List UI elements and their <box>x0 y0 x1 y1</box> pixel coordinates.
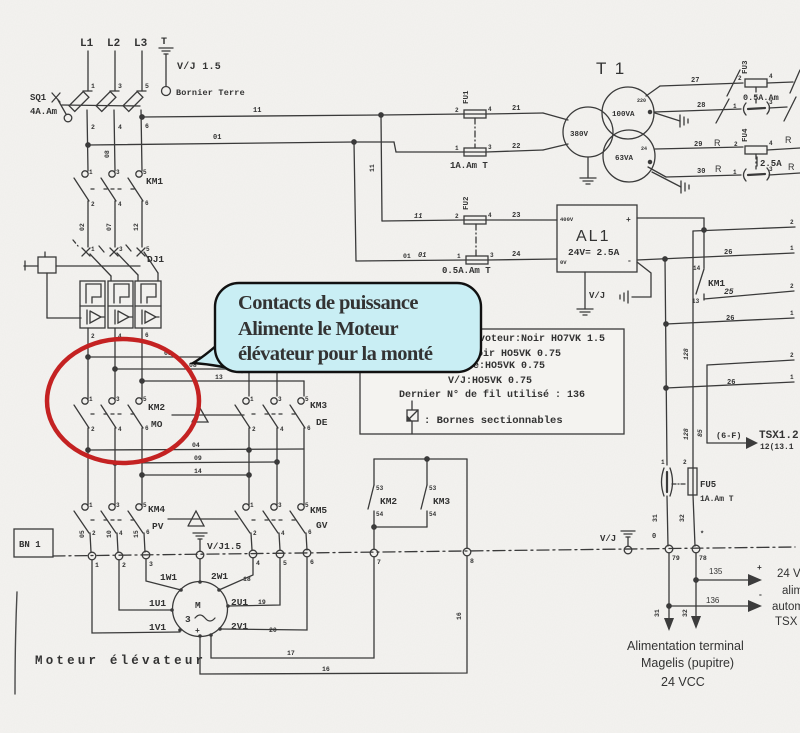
callout bubble <box>215 283 481 372</box>
wire 25 to right edge <box>704 283 794 299</box>
svg-text:6: 6 <box>145 123 149 130</box>
svg-text:2: 2 <box>734 141 738 148</box>
motor terminal dots <box>170 580 230 638</box>
wire +24V from AL1 <box>637 218 795 232</box>
terminal 8 <box>463 548 474 565</box>
svg-text:evoteur:Noir HO7VK 1.5: evoteur:Noir HO7VK 1.5 <box>473 333 605 345</box>
wire 19 terminal5 to 2U1 <box>228 558 280 606</box>
svg-text:PV: PV <box>152 521 164 532</box>
AL1 minus earth stub <box>620 262 651 303</box>
svg-text:6: 6 <box>146 529 150 536</box>
svg-text:28: 28 <box>697 102 705 110</box>
down arrow wire 32 <box>682 609 701 629</box>
earth stub secondary 1 <box>655 113 688 127</box>
disconnect switch SQ1 <box>30 92 143 122</box>
transformer T1 primary winding 380V <box>543 107 613 157</box>
svg-text:6: 6 <box>145 425 149 432</box>
svg-text:T 1: T 1 <box>596 59 626 78</box>
terminal 6 <box>303 549 314 566</box>
svg-text:3: 3 <box>490 252 494 259</box>
disconnect terminal below FU3 <box>733 87 787 115</box>
svg-text:KM2: KM2 <box>380 496 397 507</box>
KM3 output column 2 <box>276 428 278 505</box>
svg-text:6: 6 <box>307 425 311 432</box>
svg-text:54: 54 <box>376 511 384 518</box>
svg-text:1: 1 <box>455 145 459 152</box>
wire 07 column 2 KM1 to DJ1 <box>106 201 115 247</box>
svg-text:4: 4 <box>256 560 260 567</box>
svg-text:31: 31 <box>652 514 659 522</box>
svg-text:autom: autom <box>772 601 800 613</box>
svg-text:5: 5 <box>305 502 309 509</box>
svg-text:KM3: KM3 <box>310 400 327 411</box>
power supply AL1 <box>557 205 637 272</box>
wire 08 to KM3 <box>113 362 277 396</box>
wire column 1 below SQ1 <box>87 110 95 171</box>
wire terminal1 to 1V1 <box>92 560 180 633</box>
svg-text:2: 2 <box>790 283 794 290</box>
svg-text:1: 1 <box>790 374 794 381</box>
thermal trip elements <box>86 310 88 324</box>
wire 30 secondary to terminal <box>648 164 741 177</box>
wire 02 column 1 KM1 to DJ1 <box>79 201 88 247</box>
callout bubble tail <box>193 334 242 372</box>
svg-text:1U1: 1U1 <box>149 598 166 609</box>
svg-text:1: 1 <box>95 562 99 569</box>
svg-text:élévateur pour la monté: élévateur pour la monté <box>238 343 433 365</box>
svg-text:*: * <box>700 531 704 539</box>
svg-text:27: 27 <box>691 77 699 85</box>
transformer T1 secondary 63VA <box>603 130 655 182</box>
svg-text:24V= 2.5A: 24V= 2.5A <box>568 247 620 258</box>
svg-text:FU2: FU2 <box>463 196 471 210</box>
svg-text:22: 22 <box>512 143 520 151</box>
svg-text:4: 4 <box>119 530 123 537</box>
down arrow wire 31 <box>654 609 674 631</box>
svg-text:5: 5 <box>283 560 287 567</box>
KM2 output column 2 <box>114 428 116 505</box>
svg-text:18: 18 <box>243 576 251 583</box>
svg-text:V/J: V/J <box>600 534 616 544</box>
phase L1 incoming <box>80 38 95 91</box>
svg-text:1V1: 1V1 <box>149 622 166 633</box>
wire 18 terminal4 to 2W1 <box>219 558 253 590</box>
svg-text:400V: 400V <box>560 216 574 223</box>
KM2 output column 1 <box>87 428 89 505</box>
svg-text:01: 01 <box>213 134 221 142</box>
svg-text:TSX 3: TSX 3 <box>775 616 800 628</box>
svg-text:1: 1 <box>661 459 665 466</box>
wire terminal3 to 1W1 <box>146 559 181 590</box>
svg-text:11: 11 <box>369 164 376 172</box>
svg-text:4: 4 <box>118 201 122 208</box>
svg-text:220: 220 <box>637 98 646 104</box>
svg-text:24: 24 <box>641 146 647 152</box>
svg-text:2: 2 <box>122 562 126 569</box>
svg-text:1: 1 <box>89 169 93 176</box>
wire 12 column 3 KM1 to DJ1 <box>133 201 142 247</box>
svg-text:FU3: FU3 <box>742 60 750 74</box>
svg-text:3: 3 <box>116 396 120 403</box>
svg-text:85: 85 <box>697 429 704 437</box>
svg-text:15: 15 <box>133 530 140 538</box>
svg-text:100VA: 100VA <box>612 111 635 119</box>
svg-text:T: T <box>161 37 167 48</box>
svg-text:MO: MO <box>151 419 163 430</box>
svg-text:TSX1.2: TSX1.2 <box>759 430 799 442</box>
disconnect terminal on 0V rail <box>652 459 673 546</box>
svg-text:08: 08 <box>104 150 111 158</box>
svg-text:2: 2 <box>253 530 257 537</box>
label 24V alim automate TSX <box>772 568 800 628</box>
svg-text:128: 128 <box>683 348 690 360</box>
contactor KM2 main contacts (montee) <box>74 396 165 433</box>
svg-text:53: 53 <box>376 485 384 492</box>
svg-text:04: 04 <box>192 442 200 449</box>
svg-text:4: 4 <box>280 426 284 433</box>
wire 26 branch 3 <box>664 374 794 390</box>
red highlight ellipse around KM2 <box>47 339 199 463</box>
terminal 78 <box>692 531 707 562</box>
svg-text:1: 1 <box>457 253 461 260</box>
svg-text:01: 01 <box>418 252 426 260</box>
wire 136 to Magelis <box>667 553 762 618</box>
svg-text:L3: L3 <box>134 38 148 50</box>
svg-text:V/J1.5: V/J1.5 <box>207 541 242 552</box>
arrow link to TSX1.2 <box>707 430 799 452</box>
earth V/J1.5 at terminal strip <box>193 533 242 552</box>
svg-text:V/J: V/J <box>589 291 605 301</box>
KM4 outputs to terminals <box>90 533 91 552</box>
svg-text:2: 2 <box>91 124 95 131</box>
DJ1 output column 1 <box>88 328 95 399</box>
svg-text:0.5A.Am: 0.5A.Am <box>743 93 779 103</box>
motor M elevator <box>173 582 228 637</box>
brake circuit parallel bar <box>374 457 467 548</box>
svg-text:1: 1 <box>733 169 737 176</box>
svg-text:2V1: 2V1 <box>231 621 248 632</box>
wire 17 motor brake to terminal 7 <box>211 557 374 658</box>
svg-text:0: 0 <box>652 533 656 541</box>
sheet break mark wire 27 right <box>790 70 800 93</box>
svg-text:6: 6 <box>308 529 312 536</box>
svg-text:128: 128 <box>683 428 690 440</box>
svg-text:16: 16 <box>456 612 463 620</box>
svg-text:3: 3 <box>769 99 773 106</box>
svg-text:26: 26 <box>727 379 735 387</box>
svg-text:1: 1 <box>89 396 93 403</box>
wire 14 cross link <box>140 468 251 477</box>
svg-text:4: 4 <box>488 212 492 219</box>
svg-text:1: 1 <box>250 502 254 509</box>
wire 01 drop to FU2 <box>352 140 356 261</box>
svg-text:1W1: 1W1 <box>160 572 177 583</box>
svg-text:V/J 1.5: V/J 1.5 <box>177 61 221 73</box>
svg-text:1: 1 <box>250 396 254 403</box>
svg-text:0.5A.Am T: 0.5A.Am T <box>442 266 491 276</box>
svg-text:3: 3 <box>118 83 122 90</box>
svg-text:-: - <box>627 257 632 266</box>
svg-text:5: 5 <box>143 169 147 176</box>
svg-text:20: 20 <box>269 627 277 634</box>
wire 128 vertical rail to FU5 <box>683 231 693 468</box>
svg-text:alim: alim <box>782 585 800 597</box>
svg-text:GV: GV <box>316 520 328 531</box>
svg-text:6: 6 <box>145 200 149 207</box>
svg-text:KM2: KM2 <box>148 402 165 413</box>
terminal V/J right <box>600 531 656 554</box>
KM2 auxiliary contact (brake) <box>368 485 397 549</box>
svg-text:4A.Am: 4A.Am <box>30 107 58 117</box>
svg-text:3: 3 <box>278 396 282 403</box>
svg-text:26: 26 <box>724 249 732 257</box>
svg-text:Alimente le Moteur: Alimente le Moteur <box>238 318 398 340</box>
mechanical interlock KM4-KM5 <box>168 511 238 526</box>
svg-text:8: 8 <box>470 558 474 565</box>
KM3 output column 3 <box>303 428 305 505</box>
fuse FU2 lower pole <box>356 224 557 276</box>
contactor KM5 main contacts (grande vitesse) <box>235 502 328 537</box>
svg-text:1: 1 <box>91 83 95 90</box>
svg-text:24: 24 <box>512 251 520 259</box>
svg-text:5: 5 <box>143 502 147 509</box>
svg-text:FU1: FU1 <box>463 90 471 104</box>
svg-text:2: 2 <box>91 201 95 208</box>
svg-text:24 VCC: 24 VCC <box>661 675 705 689</box>
svg-text:24 VC: 24 VC <box>777 568 800 580</box>
svg-text:4: 4 <box>769 73 773 80</box>
svg-text:1: 1 <box>91 246 95 253</box>
contactor KM1 main contacts <box>74 169 163 208</box>
svg-text:-: - <box>758 591 763 600</box>
svg-text:oir HO5VK 0.75: oir HO5VK 0.75 <box>477 348 561 360</box>
svg-text:29: 29 <box>694 141 702 149</box>
svg-text:02: 02 <box>79 223 86 231</box>
circuit breaker DJ1 poles <box>73 240 164 281</box>
svg-text:54: 54 <box>429 511 437 518</box>
fuse FU1 lower pole <box>354 118 543 171</box>
svg-text:12(13.1: 12(13.1 <box>760 443 794 452</box>
svg-text:2: 2 <box>455 107 459 114</box>
svg-text:136: 136 <box>706 596 720 605</box>
KM5 outputs to terminals <box>251 533 252 550</box>
svg-text:2: 2 <box>455 213 459 220</box>
terminal 7 <box>370 549 381 566</box>
svg-text:2: 2 <box>683 459 687 466</box>
svg-text:5: 5 <box>145 83 149 90</box>
contactor KM3 main contacts (descente) <box>235 396 328 433</box>
wire 04 cross link <box>86 442 304 452</box>
terminal 79 <box>665 545 680 562</box>
wire earth to motor frame <box>199 559 201 582</box>
svg-text:6: 6 <box>145 332 149 339</box>
svg-text:2: 2 <box>91 333 95 340</box>
svg-text:3: 3 <box>488 144 492 151</box>
svg-text:21: 21 <box>512 105 520 113</box>
wire 13 to KM3 <box>140 374 304 396</box>
svg-text:Bornier Terre: Bornier Terre <box>176 88 245 98</box>
disconnect terminal below FU4 <box>744 154 800 181</box>
svg-text:4: 4 <box>769 140 773 147</box>
svg-text:Alimentation terminal: Alimentation terminal <box>627 639 744 653</box>
svg-text:KM4: KM4 <box>148 504 165 515</box>
terminal 2 <box>115 552 126 569</box>
wire 03 to KM3 <box>86 350 249 396</box>
svg-text:(6-F): (6-F) <box>716 431 742 441</box>
terminal 3 <box>142 551 153 568</box>
svg-text:12: 12 <box>133 223 140 231</box>
svg-text:DE: DE <box>316 417 328 428</box>
contactor KM4 main contacts (petite vitesse) <box>74 502 165 538</box>
svg-text:R: R <box>788 162 795 172</box>
svg-text:4: 4 <box>488 106 492 113</box>
wire 09 cross link <box>113 455 279 465</box>
svg-text:53: 53 <box>429 485 437 492</box>
sheet border fragment bottom-left <box>15 592 17 694</box>
svg-text:AL1: AL1 <box>576 228 610 245</box>
DJ1 auxiliary contact box <box>24 252 140 318</box>
magnetic trip elements <box>86 284 101 303</box>
svg-text:6: 6 <box>310 559 314 566</box>
svg-text:4: 4 <box>118 426 122 433</box>
mechanical interlock KM2-KM3 <box>172 408 244 422</box>
wire 16 motor brake to terminal 8 <box>200 556 467 674</box>
svg-text:26: 26 <box>726 315 734 323</box>
svg-text:3: 3 <box>769 166 773 173</box>
svg-text:19: 19 <box>258 599 266 606</box>
svg-text:23: 23 <box>512 212 520 220</box>
svg-text:+: + <box>757 564 762 573</box>
fuse FU3 <box>738 60 793 103</box>
svg-text:+: + <box>626 216 631 225</box>
terminal 1 <box>88 552 99 569</box>
fuse FU4 <box>742 128 800 169</box>
svg-text:5: 5 <box>143 396 147 403</box>
legend box wire colours <box>360 329 624 434</box>
KM3 auxiliary contact (brake) <box>372 485 451 529</box>
earth terminal T / Bornier Terre <box>159 37 245 98</box>
svg-text:2: 2 <box>92 530 96 537</box>
svg-text:5: 5 <box>305 396 309 403</box>
wire terminal2 to 1U1 <box>119 560 172 610</box>
wire 135 to Magelis <box>694 553 762 616</box>
label Alimentation terminal Magelis <box>627 639 744 689</box>
DJ1 output column 3 <box>142 328 149 399</box>
KM3 output column 1 <box>248 428 250 505</box>
svg-text:1: 1 <box>89 502 93 509</box>
svg-text:R: R <box>715 164 722 174</box>
svg-text:L1: L1 <box>80 38 94 50</box>
wire 26 branch 2 <box>664 310 794 326</box>
svg-text:2: 2 <box>790 352 794 359</box>
svg-text:BN 1: BN 1 <box>19 540 41 550</box>
wire 20 terminal6 to 2V1 <box>220 557 307 634</box>
svg-text:4: 4 <box>281 530 285 537</box>
svg-text:1: 1 <box>790 310 794 317</box>
svg-text:14: 14 <box>194 468 202 475</box>
terminal 5 <box>276 550 287 567</box>
svg-text:5: 5 <box>146 246 150 253</box>
svg-text:31: 31 <box>654 609 661 617</box>
sheet break mark wire 28 <box>716 99 729 123</box>
DJ1 output column 2 <box>115 328 122 399</box>
svg-text:2: 2 <box>738 75 742 82</box>
svg-text:V/J:HO5VK 0.75: V/J:HO5VK 0.75 <box>448 375 532 387</box>
svg-text:1: 1 <box>790 245 794 252</box>
wire 29 secondary 63VA to FU4 <box>655 138 743 149</box>
svg-text:01: 01 <box>403 253 411 260</box>
svg-text:2: 2 <box>790 219 794 226</box>
terminal 4 <box>249 550 260 567</box>
svg-text:e:HO5VK 0.75: e:HO5VK 0.75 <box>473 361 545 372</box>
svg-text:25: 25 <box>724 288 734 297</box>
wire 27 secondary to FU3 <box>646 77 743 96</box>
svg-text:M: M <box>195 600 201 611</box>
svg-text:79: 79 <box>672 555 680 562</box>
svg-text:30: 30 <box>697 168 705 176</box>
0V vertical rail <box>665 259 667 465</box>
sheet break mark wire 27 <box>727 70 740 96</box>
svg-text:11: 11 <box>253 107 261 115</box>
svg-text:1: 1 <box>733 103 737 110</box>
svg-text:32: 32 <box>679 514 686 522</box>
svg-text:3: 3 <box>149 561 153 568</box>
earth stub secondary 2 <box>652 172 689 193</box>
svg-text:4: 4 <box>118 124 122 131</box>
svg-text:KM1: KM1 <box>146 176 163 187</box>
phase L3 incoming <box>134 38 149 91</box>
fuse FU5 <box>672 459 734 546</box>
svg-text:1A.Am T: 1A.Am T <box>700 495 734 504</box>
svg-text:07: 07 <box>106 223 113 231</box>
wire column 3 below SQ1 <box>141 110 149 171</box>
svg-text:7: 7 <box>377 559 381 566</box>
svg-text:13: 13 <box>215 374 223 381</box>
transformer T1 secondary 100VA <box>602 87 654 139</box>
fuse FU2 upper pole <box>382 196 557 224</box>
svg-text:3: 3 <box>116 169 120 176</box>
svg-text:FU4: FU4 <box>742 128 750 142</box>
svg-text:KM5: KM5 <box>310 505 327 516</box>
terminal strip BN 1 <box>14 529 795 557</box>
svg-text:2W1: 2W1 <box>211 571 228 582</box>
svg-text:135: 135 <box>709 567 723 576</box>
svg-text:17: 17 <box>287 650 295 657</box>
svg-text:11: 11 <box>414 213 422 221</box>
svg-text:380V: 380V <box>570 131 589 139</box>
svg-text:2: 2 <box>91 426 95 433</box>
svg-text:: Bornes sectionnables: : Bornes sectionnables <box>424 415 563 427</box>
svg-text:2: 2 <box>252 426 256 433</box>
wire 28 secondary to terminal <box>654 102 741 112</box>
svg-text:FU5: FU5 <box>700 480 716 490</box>
sheet break mark wire 28 right <box>784 97 796 121</box>
DJ1 trip unit boxes <box>80 281 161 328</box>
svg-text:09: 09 <box>194 455 202 462</box>
KM2 output column 3 <box>141 428 143 505</box>
svg-text:3: 3 <box>278 502 282 509</box>
wire 26 0V from AL1 <box>637 245 794 261</box>
svg-text:Magelis (pupitre): Magelis (pupitre) <box>641 656 734 670</box>
svg-text:3: 3 <box>185 614 191 625</box>
svg-text:32: 32 <box>682 609 689 617</box>
svg-text:3: 3 <box>119 246 123 253</box>
wire 01 horizontal <box>86 134 354 147</box>
AL1 earth V/J <box>577 272 605 315</box>
wire column 2 below SQ1 <box>104 110 122 171</box>
svg-text:16: 16 <box>322 666 330 673</box>
wire 11 drop to FU2 <box>369 113 383 221</box>
